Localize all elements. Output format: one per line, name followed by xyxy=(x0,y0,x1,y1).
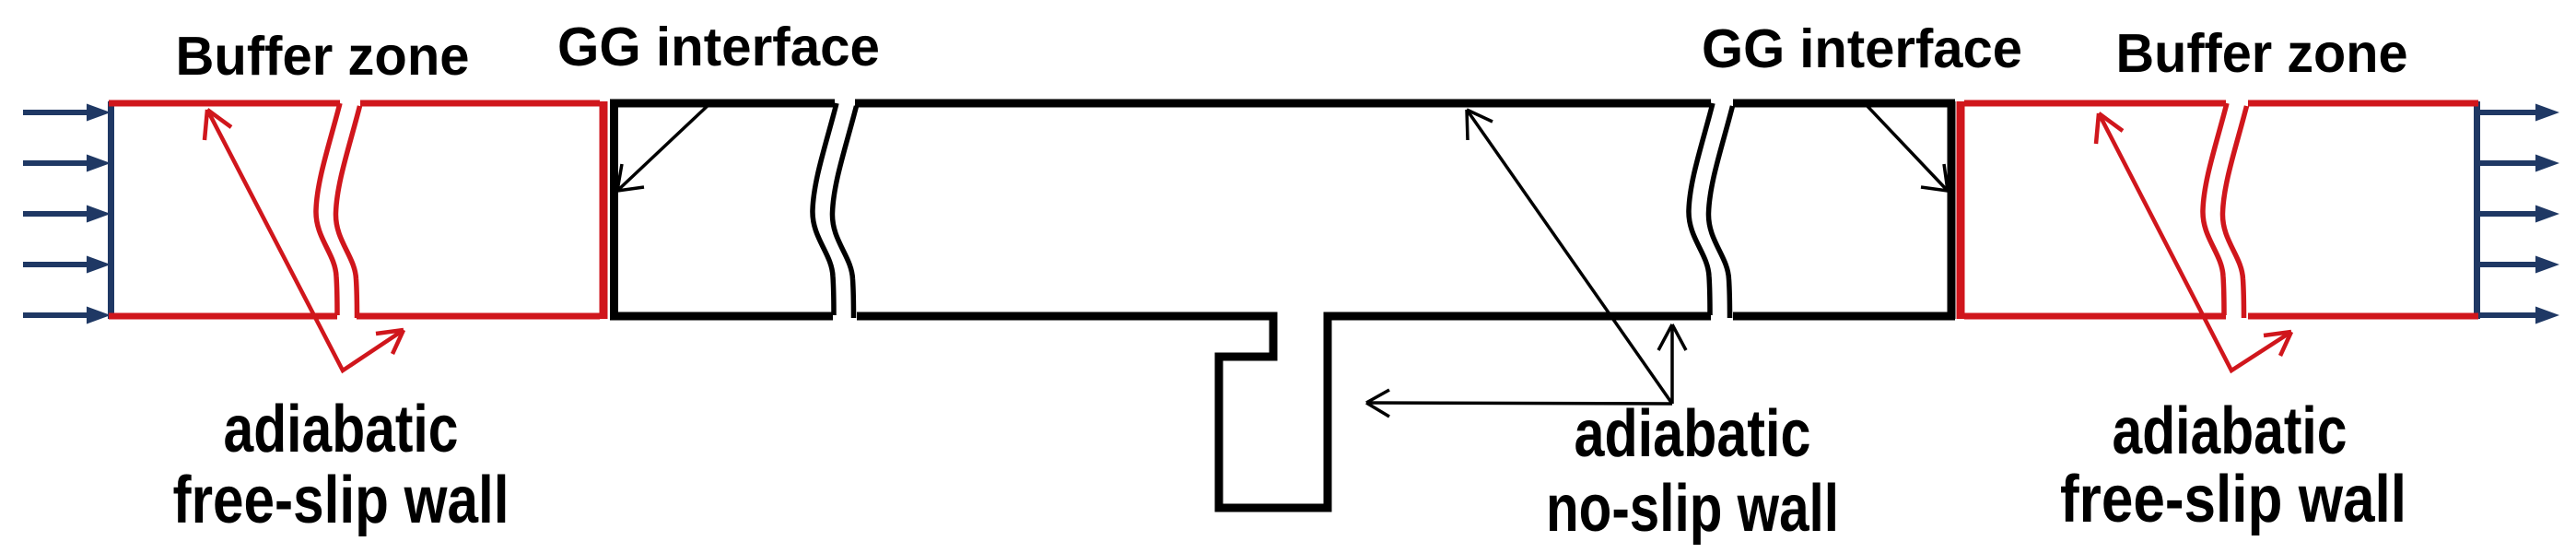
svg-text:Buffer zone: Buffer zone xyxy=(2116,23,2408,84)
svg-text:adiabatic: adiabatic xyxy=(1575,397,1811,471)
svg-text:adiabatic: adiabatic xyxy=(2113,394,2348,468)
svg-text:adiabatic: adiabatic xyxy=(224,393,459,466)
svg-text:Buffer zone: Buffer zone xyxy=(176,26,470,87)
svg-text:free-slip wall: free-slip wall xyxy=(2060,463,2406,536)
svg-text:GG interface: GG interface xyxy=(1702,18,2022,79)
svg-text:free-slip wall: free-slip wall xyxy=(173,464,509,537)
svg-text:no-slip wall: no-slip wall xyxy=(1546,472,1839,546)
svg-text:GG interface: GG interface xyxy=(557,17,880,77)
